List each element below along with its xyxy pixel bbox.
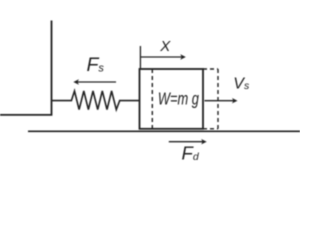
svg-text:W=m g: W=m g — [158, 89, 199, 109]
svg-text:X: X — [159, 38, 171, 55]
